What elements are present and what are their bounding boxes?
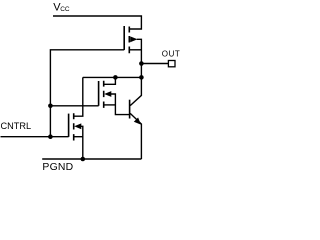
- svg-text:CNTRL: CNTRL: [1, 121, 32, 131]
- svg-text:PGND: PGND: [42, 162, 73, 172]
- svg-text:OUT: OUT: [162, 50, 181, 59]
- svg-text:CC: CC: [60, 6, 70, 13]
